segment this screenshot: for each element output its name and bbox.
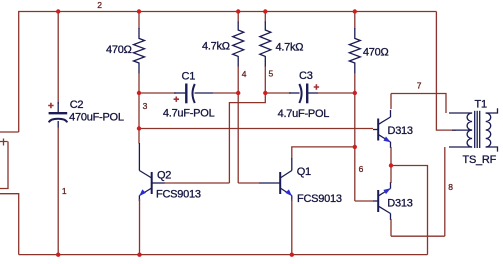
capacitor C2 <box>49 102 68 128</box>
wire: Q1 emitter down <box>291 199 293 255</box>
svg-text:C3: C3 <box>299 70 313 82</box>
junction Q2 collector / D313 base wire <box>137 126 141 130</box>
junction R4 top on net 2 <box>353 9 357 13</box>
svg-text:FCS9013: FCS9013 <box>156 189 201 201</box>
connector fragment at left edge <box>0 139 8 189</box>
junction R2 top on net 2 <box>236 9 240 13</box>
svg-text:4: 4 <box>242 69 247 79</box>
wire: Q1 collector to node 6 <box>292 147 355 159</box>
junction Q1 emitter on net 1 <box>290 253 294 257</box>
resistor R4 470 right <box>354 12 356 30</box>
D313 upper emitter arrow <box>383 137 390 143</box>
svg-text:4.7uF-POL: 4.7uF-POL <box>163 108 215 120</box>
wire: R4 bottom pin to node 6 <box>354 73 356 93</box>
transistor Q3 D313 upper <box>373 110 391 148</box>
svg-text:C2: C2 <box>70 99 84 111</box>
transistor Q2 FCS9013 (mirrored NPN) <box>139 143 164 201</box>
svg-text:D313: D313 <box>387 198 412 210</box>
junction D313 emitters <box>389 163 393 167</box>
capacitor C1 <box>174 84 213 104</box>
svg-text:D313: D313 <box>388 125 413 137</box>
wire: D313 lower collector down <box>390 219 392 236</box>
wire: Q2 collector long wire to D313 Q3 base <box>138 93 140 144</box>
wire: node 5 jog down-left <box>229 93 265 183</box>
junction node 4 <box>236 91 240 95</box>
svg-text:4.7uF-POL: 4.7uF-POL <box>278 108 330 120</box>
junction R3 top on net 2 <box>263 9 267 13</box>
junction C2 bottom on net 1 <box>56 253 60 257</box>
capacitor C3 <box>289 84 318 104</box>
junction R1 top on net 2 <box>137 9 141 13</box>
Q1 emitter arrow <box>285 189 292 196</box>
svg-text:470Ω: 470Ω <box>106 44 132 56</box>
svg-text:470Ω: 470Ω <box>363 46 389 58</box>
svg-text:C1: C1 <box>182 71 196 83</box>
wire: C3 right to node 6 <box>318 92 355 94</box>
junction C2 top on net 2 <box>56 9 60 13</box>
svg-text:4.7kΩ: 4.7kΩ <box>276 42 304 54</box>
wire: node 6 vertical <box>354 93 356 201</box>
wire: net 8 vertical <box>444 147 446 236</box>
wire: net 7 collector to transformer <box>391 94 446 114</box>
Q2 emitter arrow <box>139 189 146 196</box>
svg-text:TS_RF: TS_RF <box>463 154 497 166</box>
svg-text:470uF-POL: 470uF-POL <box>69 112 124 124</box>
svg-text:6: 6 <box>359 164 364 174</box>
D313 lower emitter arrow (points up-right) <box>383 188 390 194</box>
wire: center tap from top rail <box>436 12 456 131</box>
svg-text:3: 3 <box>143 101 148 111</box>
transistor Q1 FCS9013 <box>259 158 292 201</box>
wire: emitter junction to right and down <box>391 166 428 255</box>
junction Q1 collector / net 6 <box>353 145 357 149</box>
wire: Q2 emitter down <box>139 199 141 255</box>
wire: D313 upper emitter down to junction <box>390 147 392 166</box>
wire: D313 lower emitter up to junction <box>390 166 392 184</box>
resistor R2 4.7k <box>237 12 239 23</box>
wire: node 5 to C3 <box>265 92 291 94</box>
junction Q2 emitter on net 1 <box>137 253 141 257</box>
C2 plus sign <box>48 103 53 108</box>
svg-text:8: 8 <box>448 182 453 192</box>
wire: R1 bottom pin to node 3 <box>138 73 140 93</box>
wire: top power rail net 2 <box>19 12 437 133</box>
transistor Q4 D313 lower (flipped) <box>373 182 391 220</box>
junction node 6 <box>353 91 357 95</box>
wire: Q2 base horizontal <box>164 182 229 184</box>
svg-text:2: 2 <box>97 0 102 10</box>
wire: node 4 vertical down to Q1 base row <box>237 93 239 183</box>
svg-text:Q1: Q1 <box>297 166 311 178</box>
wire: D313 lower collector horizontal net 8 <box>391 235 445 237</box>
wire: R2 bottom pin to node 4 <box>237 66 239 93</box>
resistor R1 470 left <box>138 12 140 30</box>
C1 plus sign <box>174 97 179 102</box>
svg-text:1: 1 <box>62 186 67 196</box>
wire: top-left stub to edge <box>0 131 19 133</box>
junction node 5 <box>263 91 267 95</box>
svg-text:5: 5 <box>269 69 274 79</box>
svg-text:7: 7 <box>417 81 422 91</box>
wire: C1 right to node 4 <box>213 92 238 94</box>
wire: D313 upper collector up <box>390 94 392 110</box>
wire: C2 column bottom <box>57 127 59 255</box>
svg-text:Q2: Q2 <box>157 169 171 181</box>
resistor R3 4.7k <box>264 12 266 23</box>
wire: node 3 horizontal to C1 <box>139 92 176 94</box>
wire: C2 column top <box>57 12 59 105</box>
svg-text:T1: T1 <box>475 99 487 111</box>
wire: R3 bottom pin to node 5 <box>264 66 266 93</box>
wire: Q1 base horizontal <box>238 182 260 184</box>
wire: lower left to bottom rail <box>0 194 19 255</box>
svg-text:FCS9013: FCS9013 <box>297 193 342 205</box>
bottom rail net 1 <box>19 254 428 256</box>
transformer T1 <box>449 108 498 151</box>
C3 plus sign <box>314 84 319 89</box>
wire: node 6 to D313 Q4 base <box>355 200 373 202</box>
svg-text:4.7kΩ: 4.7kΩ <box>202 41 230 53</box>
junction node 3 <box>137 91 141 95</box>
